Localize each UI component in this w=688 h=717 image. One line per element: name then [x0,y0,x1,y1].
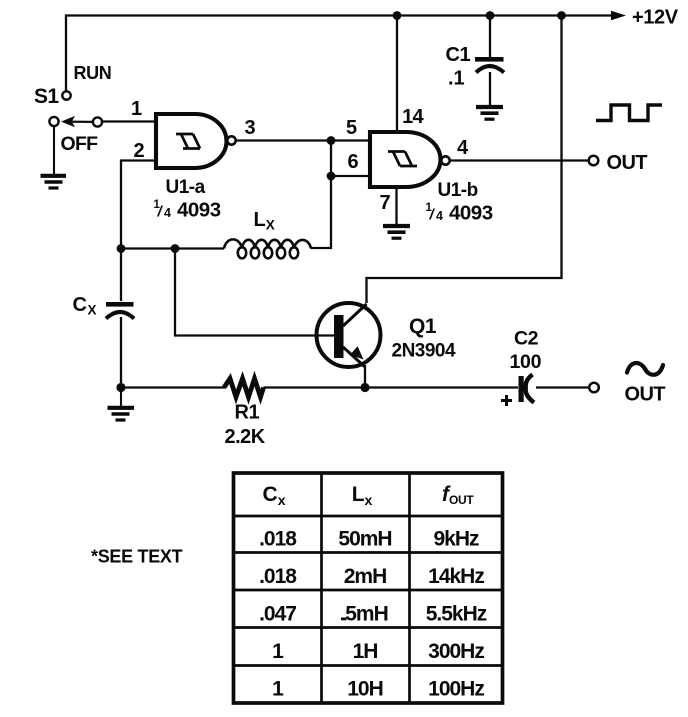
svg-text:OUT: OUT [625,384,666,406]
svg-text:5mH: 5mH [345,603,388,626]
svg-text:4093: 4093 [177,199,221,222]
wire pin7 to ground [395,187,397,225]
U1-a schmitt hysteresis symbol [176,134,200,149]
svg-text:5: 5 [346,117,357,139]
svg-text:100Hz: 100Hz [428,678,484,701]
svg-text:+12V: +12V [632,7,679,29]
svg-text:S1: S1 [34,85,59,108]
junction dot node A Cx [117,244,126,253]
svg-text:RUN: RUN [74,63,112,83]
arrow +12V [611,11,626,21]
junction dot rail collector riser [557,11,566,20]
svg-text:1: 1 [272,678,284,701]
wire pin4 to OUT terminal [450,159,589,161]
op-amp U1-b (NAND gate body) [370,132,441,187]
square wave icon [596,105,662,121]
sine wave icon [627,363,663,375]
op-amp U1-a (NAND gate body) [156,114,227,168]
U1-b output bubble pin 4 [441,156,449,164]
junction dot bottom left [116,383,125,392]
svg-text:Q1: Q1 [409,315,437,338]
svg-text:14: 14 [402,106,424,128]
svg-text:6: 6 [347,151,358,173]
svg-text:4: 4 [164,206,171,220]
ground at C1 [476,107,503,119]
capacitor Cx [106,302,134,319]
junction dot node B pin6 [327,172,336,181]
wire collector riser to rail [367,16,562,303]
resistor R1 [224,379,264,398]
wire pin1 from switch [101,120,156,122]
wire pin3 to pin5 [236,139,370,141]
terminal OUT square [589,156,599,166]
capacitor C2 [501,375,534,407]
svg-text:*SEE TEXT: *SEE TEXT [91,547,183,567]
svg-text:7: 7 [379,192,390,214]
switch S1 run terminal [62,91,70,99]
svg-text:4093: 4093 [449,202,493,225]
svg-text:.018: .018 [259,528,297,551]
svg-text:2mH: 2mH [344,565,387,588]
svg-text:.018: .018 [259,565,297,588]
switch S1 pole terminal [49,117,58,126]
U1-b schmitt hysteresis symbol [388,152,417,167]
wire bottom left to R1 [121,386,225,388]
wire C2 to OUT terminal [536,386,589,388]
wire node A to coil [121,247,224,249]
svg-text:U1-a: U1-a [166,177,206,198]
svg-text:U1-b: U1-b [438,180,478,201]
svg-text:2.2K: 2.2K [225,426,266,448]
junction dot rail C1 [486,11,495,20]
svg-text:OUT: OUT [607,152,648,174]
ground at S1 pole [41,126,67,188]
wire pin2 [121,161,156,302]
wire emitter drop [364,365,366,388]
wire C1 to ground [489,72,491,105]
switch S1 throw terminal [93,117,102,126]
svg-text:2N3904: 2N3904 [392,341,456,362]
junction dot rail pin14 [393,11,402,20]
wire pin14 to rail [396,16,398,132]
U1-a output bubble pin 3 [227,136,235,144]
svg-text:.047: .047 [259,603,296,626]
svg-text:1: 1 [272,640,284,663]
svg-text:10H: 10H [347,678,383,701]
ground bottom left [108,392,135,420]
terminal OUT sine [589,383,599,393]
capacitor C1 [475,57,504,73]
svg-text:14kHz: 14kHz [428,565,484,588]
wire node B vertical to coil [311,141,331,249]
svg-text:3: 3 [244,117,255,139]
svg-text:C2: C2 [514,328,539,350]
wire +12V rail [66,16,616,92]
switch S1 arm [61,116,92,127]
inductor Lx [224,239,311,258]
wire pin6 [331,175,370,177]
svg-text:4: 4 [436,209,443,223]
svg-text:4: 4 [457,137,469,159]
svg-text:R1: R1 [235,402,260,424]
label 1/4 4093 (U1-b) [426,202,493,225]
wire R1 to C2 [264,386,519,388]
ground at pin 7 [383,226,410,238]
transistor Q1 [317,303,381,367]
svg-text:2: 2 [133,140,144,162]
svg-text:1: 1 [131,98,142,120]
wire base of Q1 [175,249,335,336]
svg-text:OUT: OUT [449,493,474,507]
svg-text:.1: .1 [448,68,465,90]
wire Cx lower [120,317,122,389]
svg-text:300Hz: 300Hz [428,640,484,663]
svg-text:5.5kHz: 5.5kHz [426,603,487,626]
svg-text:1H: 1H [353,640,378,663]
label 1/4 4093 (U1-a) [154,199,221,222]
junction dot emitter [360,383,369,392]
svg-text:9kHz: 9kHz [433,528,479,551]
svg-text:C1: C1 [446,44,471,66]
table frequency chart [234,473,503,703]
svg-text:50mH: 50mH [338,528,391,551]
svg-text:OFF: OFF [61,133,99,155]
wire C1 to rail [489,16,491,57]
junction dot node A base [171,244,180,253]
svg-text:100: 100 [510,351,542,373]
junction dot node B pin5 [327,136,336,145]
